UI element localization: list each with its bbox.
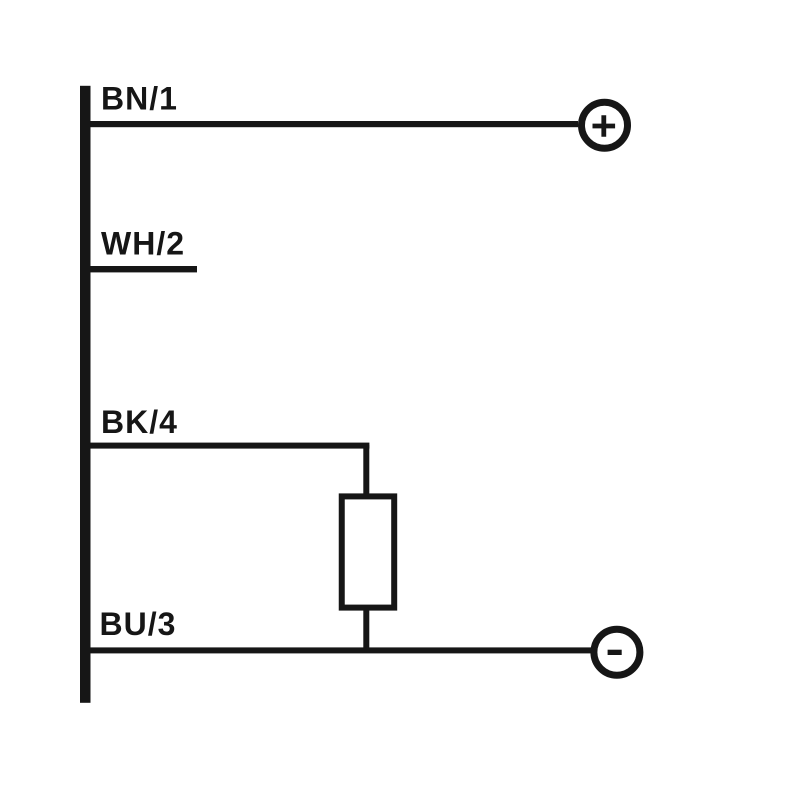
wire BK/4 vertical drop to resistor [363,445,369,494]
svg-text:BU/3: BU/3 [100,606,177,642]
wire WH/2 stub [88,266,197,272]
svg-text:BN/1: BN/1 [101,81,178,117]
connector bar (left rail) [80,86,91,703]
wire BN/1 to + terminal [88,121,578,127]
plus sign [593,115,616,137]
wire BK/4 horizontal [88,443,369,449]
terminal - (L-) circle [594,629,640,675]
svg-text:BK/4: BK/4 [101,404,178,440]
wire BU/3 to - terminal [88,647,591,653]
minus sign [608,650,622,655]
svg-text:WH/2: WH/2 [101,226,185,262]
resistor (load) [342,496,394,607]
wire resistor to BU/3 line [363,608,369,653]
terminal + (L+) circle [582,102,628,148]
